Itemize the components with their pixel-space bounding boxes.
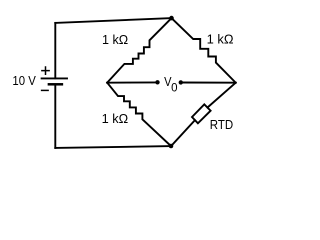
- battery V1 top plate (positive, long thin): [42, 77, 67, 79]
- wire: top horizontal (top-left corner to top node): [55, 18, 171, 23]
- svg-text:1 kΩ: 1 kΩ: [102, 32, 128, 47]
- wire: RTD branch lower lead (bottom node to RTD box): [171, 120, 195, 146]
- node A: top junction dot: [169, 16, 174, 21]
- battery plus sign: [42, 67, 49, 74]
- wire: middle left segment (left vertex to node dot 1): [107, 81, 157, 83]
- svg-text:1 kΩ: 1 kΩ: [207, 31, 234, 46]
- svg-text:RTD: RTD: [210, 117, 233, 132]
- svg-text:10 V: 10 V: [12, 73, 36, 88]
- wire: left vertical bottom segment (battery - to bottom-left corner): [54, 84, 56, 147]
- wire: bottom horizontal (bottom-left corner to bottom node): [55, 146, 171, 148]
- node B: bottom junction dot: [169, 144, 174, 149]
- node: Vo right terminal dot: [179, 80, 183, 84]
- resistor R1 1 kOhm top-left branch (staircase zigzag): [107, 18, 171, 83]
- battery V1 bottom plate (negative, short thick): [49, 83, 62, 86]
- wire: RTD branch upper lead (RTD box to right vertex): [208, 83, 236, 108]
- wire: left vertical top segment (battery + to top-left corner): [54, 23, 56, 78]
- wire: middle right segment (node dot 2 to right vertex): [181, 82, 236, 84]
- node: Vo left terminal dot: [155, 80, 159, 84]
- svg-text:0: 0: [171, 82, 177, 94]
- resistor R2 1 kOhm top-right branch (staircase zigzag): [172, 18, 236, 83]
- battery minus sign: [42, 89, 49, 91]
- svg-text:1 kΩ: 1 kΩ: [102, 111, 129, 126]
- resistor R3 1 kOhm bottom-left branch (staircase zigzag): [107, 83, 171, 146]
- RTD sensor body (rotated rectangle): [192, 104, 211, 123]
